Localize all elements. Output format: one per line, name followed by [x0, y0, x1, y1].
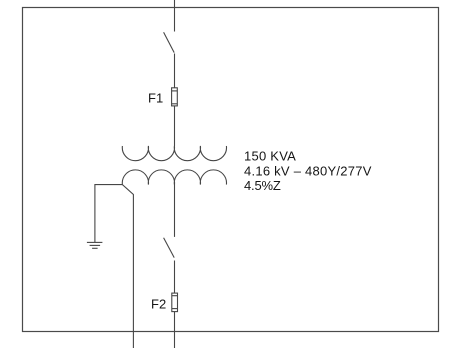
- ground symbol: [87, 242, 103, 248]
- wire: secondary neutral to ground lead: [95, 185, 123, 242]
- wire: incoming feeder from top edge: [174, 0, 176, 32]
- fuse F2: [172, 293, 178, 312]
- svg-text:4.5%Z: 4.5%Z: [244, 178, 281, 193]
- wire: neutral conductor to bottom edge: [122, 185, 133, 348]
- transformer T1 primary winding: [122, 146, 226, 161]
- svg-text:F1: F1: [148, 91, 163, 106]
- svg-text:150 KVA: 150 KVA: [244, 148, 296, 163]
- svg-text:F2: F2: [151, 297, 166, 312]
- transformer T1 secondary winding: [122, 170, 226, 185]
- switch S1 blade: [164, 32, 175, 52]
- wire: fuse F2 to bottom edge: [174, 312, 176, 348]
- switch S2 blade: [164, 238, 175, 258]
- wire: switch S1 to fuse F1: [174, 54, 176, 88]
- wire: fuse F1 to transformer primary: [174, 106, 176, 146]
- wire: switch S2 to fuse F2: [174, 261, 176, 294]
- wire: secondary center tap down to switch S2: [174, 182, 176, 237]
- svg-text:4.16 kV – 480Y/277V: 4.16 kV – 480Y/277V: [244, 163, 372, 178]
- fuse F1: [172, 88, 178, 106]
